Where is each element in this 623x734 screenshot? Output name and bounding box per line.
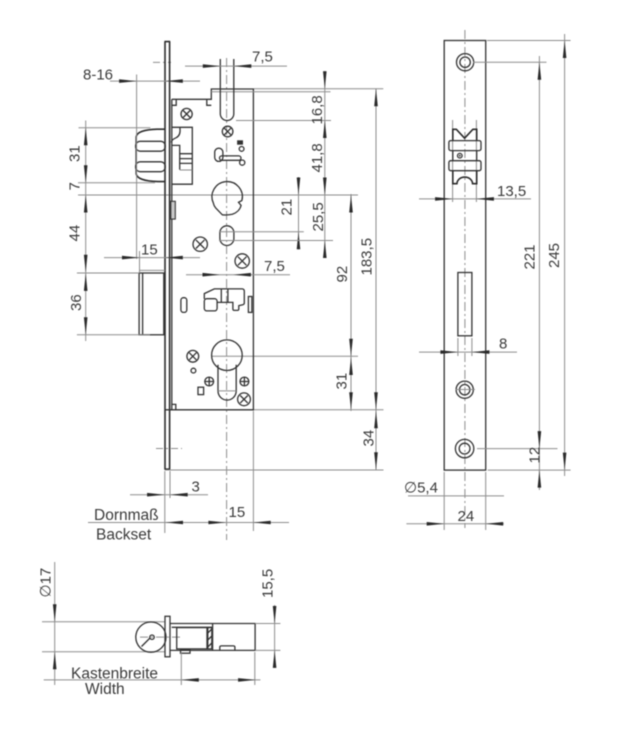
centerline follower axis <box>78 194 358 196</box>
latch band lower <box>136 162 166 172</box>
svg-text:92: 92 <box>334 266 351 283</box>
lever pawl <box>215 148 241 161</box>
clip detail <box>220 646 235 650</box>
hatch band <box>208 628 212 649</box>
svg-text:13,5: 13,5 <box>497 183 526 200</box>
faceplate front outline <box>444 41 486 471</box>
roller bottom segment <box>453 171 477 184</box>
top view faceplate bar <box>165 616 170 657</box>
dimension 31 left <box>67 121 156 342</box>
roller middle <box>453 151 477 161</box>
divider <box>212 624 214 651</box>
roller top segment <box>453 129 477 141</box>
dimension 183,5 <box>254 89 384 470</box>
screw M6 <box>238 393 251 406</box>
top view latch box <box>177 628 207 649</box>
roller band upper <box>449 141 481 151</box>
top screw hole <box>457 54 474 71</box>
dimension backset / 15 bottom <box>88 411 289 544</box>
svg-text:183,5: 183,5 <box>359 238 376 276</box>
dimension 92 <box>334 194 353 411</box>
dimension 15,5 <box>255 569 280 668</box>
dimension 12 <box>477 447 571 488</box>
dimension 7,5 lower <box>186 258 290 277</box>
svg-text:7: 7 <box>67 182 84 190</box>
screw boss tab <box>181 650 191 654</box>
cylinder screw right <box>240 377 249 386</box>
deadbolt hook box <box>139 273 164 335</box>
dimension 245 <box>487 34 571 476</box>
dimension 21 <box>219 177 304 250</box>
top rod slot <box>220 59 234 121</box>
dimension 25,5 <box>219 202 333 258</box>
dimension 34 <box>165 411 384 470</box>
pin small circle <box>191 368 196 373</box>
svg-text:15,5: 15,5 <box>260 569 277 598</box>
bottom screw hole <box>455 439 473 457</box>
dimension 8 <box>419 336 517 357</box>
latch tail block <box>171 127 192 184</box>
latch band upper <box>136 141 166 151</box>
top view roller <box>136 622 166 652</box>
svg-text:21: 21 <box>279 199 296 216</box>
dimension 36 left <box>68 273 150 335</box>
case top notch right <box>207 99 212 105</box>
middle screw hole <box>455 381 475 398</box>
screw M2 <box>222 126 233 137</box>
dimension 7 left <box>67 182 88 212</box>
dimension 31 right <box>334 358 353 410</box>
dimension 44 left <box>67 225 88 272</box>
centerline top screw slot <box>153 61 171 63</box>
svg-text:221: 221 <box>522 244 539 269</box>
screw M1 <box>181 108 192 119</box>
euro profile cylinder hole <box>212 340 243 400</box>
svg-text:Dornmaß: Dornmaß <box>94 507 159 524</box>
side tab left <box>181 298 187 313</box>
cylinder screw left <box>205 377 214 386</box>
svg-text:15: 15 <box>141 242 158 259</box>
label diameter 5,4 <box>404 480 504 497</box>
svg-text:Kastenbreite: Kastenbreite <box>71 666 158 683</box>
svg-text:∅5,4: ∅5,4 <box>404 480 438 497</box>
side tab right <box>248 297 252 313</box>
tiny rect detail <box>198 387 204 394</box>
svg-text:15: 15 <box>229 504 246 521</box>
case top second line <box>211 91 330 93</box>
svg-text:Backset: Backset <box>96 527 152 544</box>
case bottom notch <box>172 404 176 409</box>
dimension diameter 17 <box>38 562 57 685</box>
svg-text:8: 8 <box>499 336 507 353</box>
lever small circle lower <box>240 160 245 165</box>
svg-text:3: 3 <box>192 479 200 496</box>
screw M3 <box>193 237 207 251</box>
centerline right view <box>464 30 466 528</box>
svg-text:31: 31 <box>334 373 351 390</box>
svg-text:12: 12 <box>527 447 544 464</box>
svg-text:∅17: ∅17 <box>38 568 55 598</box>
centerline cylinder axis <box>211 355 358 357</box>
lever small circle upper <box>239 147 244 152</box>
profile lines top <box>42 622 165 652</box>
svg-text:7,5: 7,5 <box>264 258 285 275</box>
latch head <box>136 129 165 181</box>
centerline main vertical <box>226 58 228 540</box>
svg-text:44: 44 <box>67 225 84 242</box>
dimension 7,5 top <box>185 49 287 68</box>
latch spring leaves <box>180 154 192 170</box>
case inner line <box>172 626 213 628</box>
dimension 3 <box>130 471 208 533</box>
roller slot lines <box>453 120 477 202</box>
faceplate <box>164 42 170 470</box>
svg-text:31: 31 <box>67 145 84 162</box>
svg-text:Width: Width <box>85 681 125 698</box>
dimension 41,8 <box>309 143 327 195</box>
dimension 15 left <box>104 242 200 274</box>
svg-text:41,8: 41,8 <box>309 143 326 172</box>
svg-text:7,5: 7,5 <box>252 49 273 66</box>
lock case outline <box>165 89 253 410</box>
screw M4 <box>235 254 249 268</box>
centerline bottom screw slot <box>156 448 182 450</box>
roller band lower <box>449 161 481 171</box>
svg-text:36: 36 <box>68 294 85 311</box>
cylinder fixing slot <box>220 226 234 246</box>
follower nut <box>212 182 242 215</box>
top view case <box>170 624 255 651</box>
svg-text:245: 245 <box>546 243 563 268</box>
svg-text:34: 34 <box>361 430 378 447</box>
svg-text:25,5: 25,5 <box>310 202 327 231</box>
deadbolt slot <box>458 273 472 336</box>
case top notch left <box>172 99 176 105</box>
slide bracket <box>204 289 244 311</box>
svg-text:24: 24 <box>458 508 475 525</box>
centerline roller <box>140 636 183 638</box>
dimension 221 <box>473 56 547 490</box>
dimension 8-16 <box>83 66 200 259</box>
dimension 24 <box>406 472 503 530</box>
dimension kastenbreite width <box>44 652 261 698</box>
guide tab <box>171 201 176 219</box>
screw M5 <box>187 350 199 362</box>
lever pin square <box>237 140 243 144</box>
dimension 16,8 <box>236 71 383 258</box>
svg-text:8-16: 8-16 <box>83 66 113 83</box>
svg-text:16,8: 16,8 <box>309 95 326 124</box>
dimension 13,5 <box>419 183 531 201</box>
